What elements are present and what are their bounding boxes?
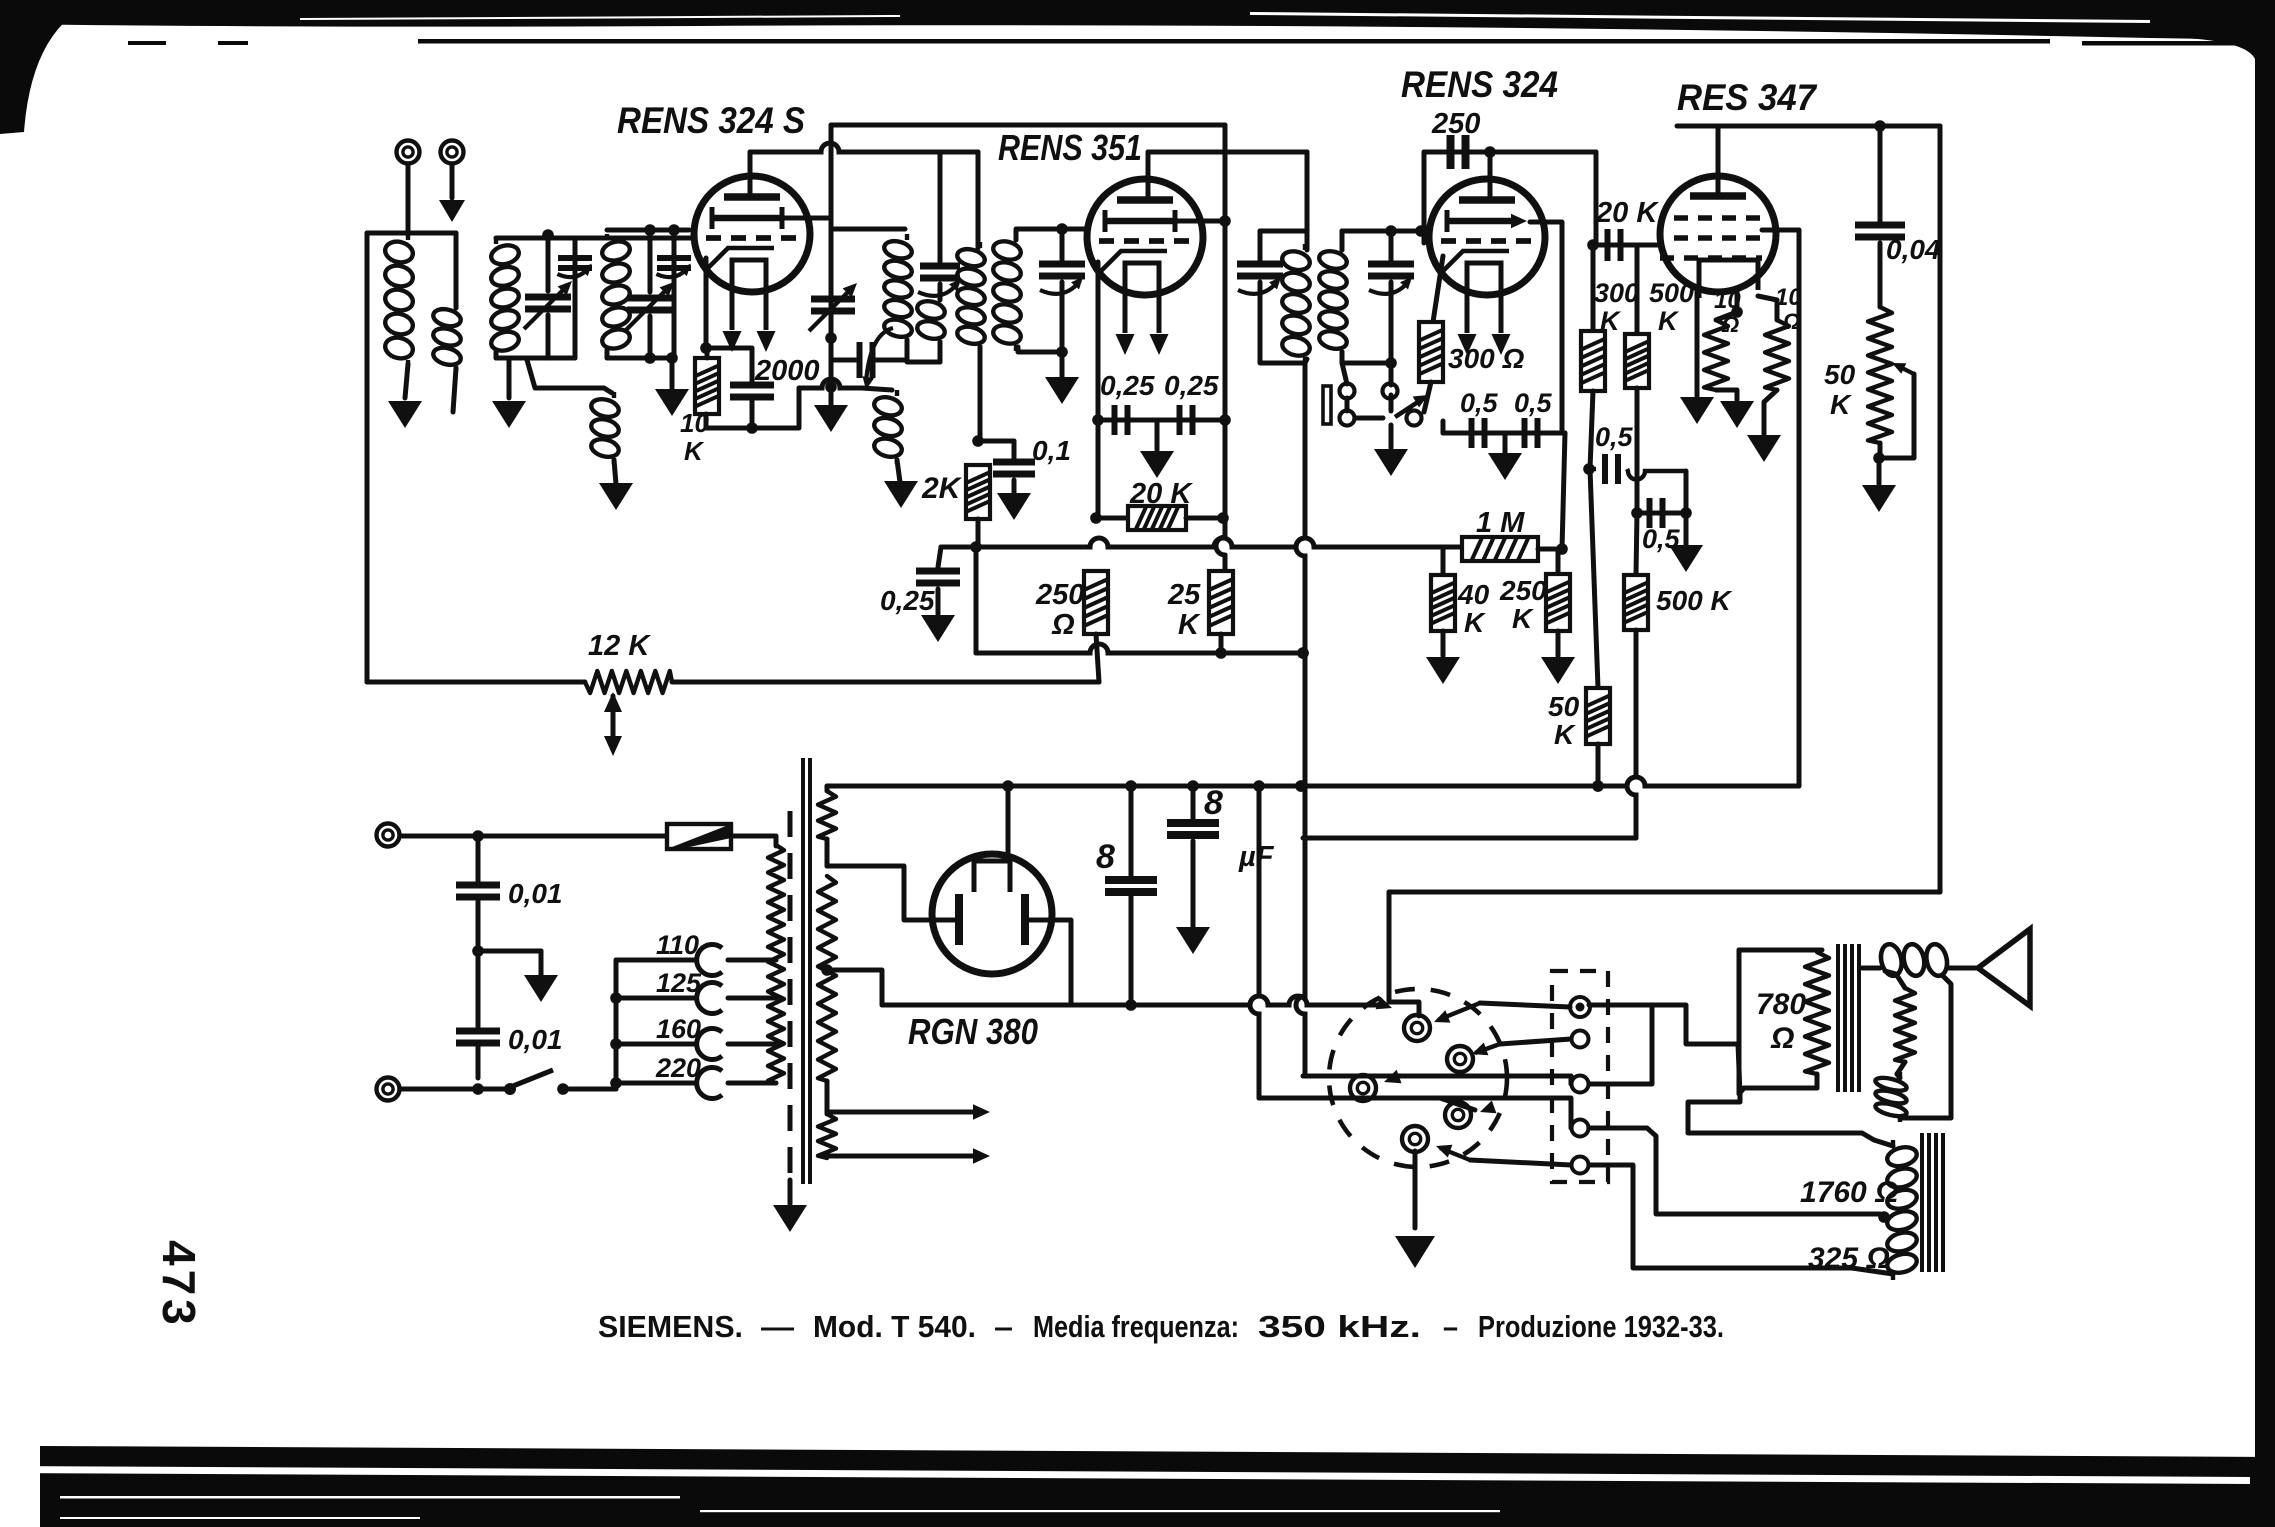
svg-text:K: K bbox=[1178, 609, 1201, 641]
wire bbox=[938, 342, 943, 362]
anode lead bbox=[1146, 152, 1151, 200]
wire bbox=[1060, 282, 1065, 378]
variable capacitor C12 bbox=[1237, 264, 1283, 276]
capacitor C24 8uF bbox=[1167, 823, 1219, 835]
wire field coil top bbox=[1688, 1094, 1874, 1140]
wire bbox=[1012, 441, 1017, 458]
wire bbox=[1305, 152, 1310, 250]
svg-text:SIEMENS.: SIEMENS. bbox=[598, 1309, 743, 1344]
screen wire bbox=[1530, 222, 1562, 433]
svg-text:RENS 324 S: RENS 324 S bbox=[617, 100, 805, 141]
strip pin bbox=[1572, 1157, 1589, 1174]
svg-text:RES 347: RES 347 bbox=[1677, 77, 1818, 118]
svg-text:350 kHz.: 350 kHz. bbox=[1258, 1309, 1421, 1344]
wire bbox=[507, 358, 512, 398]
junction bbox=[1415, 225, 1427, 237]
wire bbox=[1556, 631, 1561, 656]
bus wire B+ main bbox=[827, 777, 1799, 786]
centre tap wire bbox=[827, 970, 882, 1005]
resistor R13 500K bbox=[1624, 575, 1648, 630]
grid wire RENS 351 bbox=[1016, 227, 1088, 232]
wire bbox=[1878, 243, 1883, 307]
junction bbox=[610, 1038, 622, 1050]
top scan border band bbox=[0, 0, 2275, 40]
cathode wire bbox=[1695, 292, 1700, 396]
wire bbox=[563, 1087, 616, 1092]
junction bbox=[1731, 306, 1743, 318]
wire bbox=[1684, 513, 1689, 545]
plug pin bbox=[1402, 1126, 1428, 1152]
wire bbox=[648, 230, 653, 292]
tube RENS 351 bbox=[1087, 179, 1203, 333]
svg-text:Media frequenza:: Media frequenza: bbox=[1033, 1309, 1239, 1344]
wire bbox=[1744, 1086, 1817, 1091]
ground bbox=[773, 1205, 807, 1232]
ground terminal bbox=[441, 141, 464, 164]
ground wire bbox=[1413, 1151, 1418, 1228]
junction bbox=[825, 381, 837, 393]
screen wire bbox=[829, 125, 834, 218]
ground bbox=[1045, 377, 1079, 404]
svg-text:K: K bbox=[1512, 603, 1534, 634]
wire bbox=[974, 547, 979, 653]
svg-text:0,01: 0,01 bbox=[508, 1024, 563, 1055]
svg-text:220: 220 bbox=[655, 1053, 701, 1083]
padder capacitor C4 bbox=[860, 342, 873, 378]
wire bbox=[1186, 516, 1223, 521]
capacitor C20 0,04 bbox=[1855, 225, 1905, 237]
wire bbox=[1897, 1074, 1900, 1078]
wire B+ feed bbox=[1216, 125, 1225, 555]
transformer primary winding bbox=[768, 845, 784, 1083]
junction bbox=[1631, 507, 1643, 519]
junction bbox=[1002, 780, 1014, 792]
wire bbox=[825, 786, 830, 791]
field coil 1760/325 ohm bbox=[1885, 1140, 1918, 1280]
svg-text:Ω: Ω bbox=[1782, 309, 1800, 334]
wire bbox=[1191, 841, 1196, 926]
junction bbox=[666, 352, 678, 364]
svg-text:500 K: 500 K bbox=[1656, 585, 1732, 616]
wire bbox=[1390, 1074, 1571, 1079]
grid wire RENS 324 bbox=[1342, 229, 1424, 234]
wire bbox=[605, 350, 610, 358]
HT secondary winding bbox=[818, 876, 836, 1081]
wire bbox=[1589, 1005, 1738, 1044]
ground bbox=[388, 401, 422, 428]
wire bbox=[976, 644, 1305, 653]
variable capacitor C8 bbox=[1039, 264, 1085, 276]
wire bbox=[825, 839, 830, 866]
wire bbox=[1096, 420, 1101, 518]
wire bbox=[907, 340, 940, 362]
tap bus bbox=[614, 960, 619, 1089]
resistor R9 40K bbox=[1431, 575, 1455, 631]
ground bbox=[1374, 449, 1408, 476]
svg-text:300 Ω: 300 Ω bbox=[1448, 343, 1524, 374]
mains terminal bbox=[377, 1078, 400, 1101]
printed top frame line bbox=[418, 39, 2050, 44]
wire bbox=[1739, 950, 1744, 1094]
trimmer capacitor C1a bbox=[558, 258, 592, 268]
wiper bbox=[611, 696, 616, 740]
tube RENS 324 bbox=[1429, 179, 1545, 333]
wire bbox=[406, 164, 411, 233]
heater wire bbox=[827, 1154, 975, 1159]
wire bbox=[546, 238, 551, 291]
power switch bbox=[504, 1083, 516, 1095]
wire bbox=[1257, 786, 1262, 996]
cathode wire bbox=[1096, 262, 1101, 420]
junction bbox=[1583, 463, 1595, 475]
wire bbox=[367, 231, 456, 236]
svg-text:K: K bbox=[684, 436, 705, 466]
junction bbox=[1295, 780, 1307, 792]
junction bbox=[1680, 507, 1692, 519]
wire bbox=[938, 284, 943, 300]
wire bbox=[454, 233, 459, 308]
ground bbox=[1176, 927, 1210, 954]
heater winding bbox=[818, 1114, 836, 1158]
tap wire bbox=[728, 958, 776, 963]
ground bbox=[997, 493, 1031, 520]
trimmer capacitor C2a bbox=[657, 258, 691, 268]
field coil core bbox=[1922, 1133, 1943, 1272]
output transformer secondary bbox=[1895, 988, 1915, 1062]
wire bbox=[938, 547, 941, 567]
anode wire to IF2 bbox=[750, 143, 978, 152]
wire bbox=[1440, 1098, 1571, 1128]
wire bbox=[1758, 296, 1777, 320]
wire bbox=[1096, 634, 1099, 682]
wire bbox=[546, 315, 551, 358]
ground bbox=[1680, 397, 1714, 424]
wire bbox=[1852, 1268, 1893, 1274]
resistor R3 20K bbox=[1128, 506, 1186, 530]
junction bbox=[644, 352, 656, 364]
svg-text:Ω: Ω bbox=[1051, 609, 1075, 641]
svg-text:20 K: 20 K bbox=[1129, 478, 1193, 510]
wire bbox=[476, 836, 481, 881]
oscillator loop wire bbox=[834, 227, 905, 232]
mains wire bbox=[400, 834, 667, 839]
capacitor C6 2000 bbox=[730, 385, 774, 397]
wire bbox=[1635, 388, 1640, 513]
anode lead bbox=[1716, 126, 1721, 196]
svg-text:0,5: 0,5 bbox=[1595, 422, 1634, 452]
wire bbox=[1440, 1098, 1475, 1110]
bus wire B+ bbox=[941, 538, 1462, 547]
wire bbox=[1191, 786, 1196, 820]
junction bbox=[821, 964, 833, 976]
wire bbox=[1716, 390, 1737, 400]
junction bbox=[1219, 414, 1231, 426]
resistor R5 25K bbox=[1209, 571, 1233, 634]
printed top frame line right part bbox=[2082, 41, 2246, 46]
wire bbox=[1538, 547, 1565, 552]
svg-text:K: K bbox=[1830, 389, 1852, 420]
junction bbox=[1125, 780, 1137, 792]
resistor R12 500K bbox=[1625, 334, 1649, 388]
wire output feed bbox=[1938, 126, 1943, 892]
grid wire node A bbox=[496, 236, 695, 241]
wire 1760 tap bbox=[1589, 1128, 1880, 1214]
junction bbox=[746, 422, 758, 434]
switch lever pivot bbox=[1389, 395, 1394, 411]
wire bbox=[731, 836, 776, 846]
resistor R8 1M bbox=[1462, 537, 1538, 561]
junction bbox=[1217, 512, 1229, 524]
svg-text:–: – bbox=[1443, 1309, 1458, 1344]
junction bbox=[1592, 780, 1604, 792]
ground bbox=[599, 483, 633, 510]
wire bbox=[1738, 1044, 1740, 1094]
svg-text:0,5: 0,5 bbox=[1460, 388, 1499, 418]
wire bbox=[1470, 1160, 1571, 1165]
junction bbox=[1056, 223, 1068, 235]
wire bbox=[1422, 152, 1427, 243]
HT secondary winding top bbox=[818, 791, 836, 839]
junction bbox=[1215, 647, 1227, 659]
wire bbox=[1305, 359, 1307, 363]
svg-text:10: 10 bbox=[1714, 287, 1741, 314]
wire bbox=[1797, 230, 1802, 786]
plug pin bbox=[1445, 1102, 1471, 1128]
ground bbox=[524, 975, 558, 1002]
wire bbox=[1098, 418, 1225, 423]
junction bbox=[970, 541, 982, 553]
core ground lead bbox=[788, 1180, 793, 1204]
wire bbox=[1389, 282, 1394, 385]
tap contact 220V bbox=[697, 1068, 722, 1099]
junction bbox=[1125, 999, 1137, 1011]
mains terminal bbox=[377, 824, 400, 847]
speaker coil bbox=[1878, 942, 1950, 977]
screen wire bbox=[1762, 228, 1799, 233]
plug pin bbox=[1447, 1046, 1473, 1072]
tap contact 125V bbox=[697, 982, 722, 1013]
variable capacitor C13 bbox=[1368, 264, 1414, 276]
screen lead bbox=[782, 216, 831, 221]
wire bbox=[1260, 229, 1307, 234]
wire bbox=[478, 949, 541, 954]
junction bbox=[472, 830, 484, 842]
ground bbox=[884, 481, 918, 508]
wire bbox=[831, 358, 858, 363]
bottom scan border band bbox=[40, 1446, 2275, 1527]
tap contact 160V bbox=[697, 1029, 722, 1060]
strip pin bbox=[1572, 1120, 1589, 1137]
capacitor C17 20K bbox=[1608, 229, 1621, 261]
resistor R15 10 ohm bbox=[1704, 320, 1728, 390]
rectified output wire bbox=[882, 996, 1385, 1005]
switch contact bbox=[1340, 411, 1355, 426]
wire bbox=[1250, 996, 1259, 1098]
speaker horn bbox=[1978, 929, 2030, 1006]
junction bbox=[1385, 357, 1397, 369]
wire bbox=[1874, 1140, 1893, 1146]
resistor R1 10K bbox=[695, 358, 719, 414]
switch bar bbox=[1323, 386, 1331, 424]
wire bbox=[750, 397, 755, 428]
wire bbox=[453, 368, 456, 412]
wire to plug bbox=[1259, 1096, 1440, 1101]
wire bbox=[1060, 229, 1065, 260]
junction bbox=[1219, 215, 1231, 227]
svg-text:1 M: 1 M bbox=[1476, 507, 1525, 539]
svg-text:RENS 351: RENS 351 bbox=[998, 127, 1142, 168]
mains wire bbox=[400, 1087, 506, 1092]
bottom band white streak bbox=[60, 1496, 680, 1499]
wire bbox=[1340, 231, 1345, 250]
wire bbox=[976, 519, 981, 546]
wire bbox=[1503, 433, 1508, 454]
junction bbox=[610, 992, 622, 1004]
wire bbox=[1948, 966, 1978, 971]
filament lead bbox=[1006, 786, 1011, 861]
switch contact bbox=[1340, 384, 1355, 399]
capacitor C23 8uF bbox=[1105, 880, 1157, 892]
svg-text:0,5: 0,5 bbox=[1514, 388, 1553, 418]
wire bbox=[978, 347, 983, 441]
wire bbox=[1716, 312, 1737, 320]
wire to plug pin bbox=[1389, 892, 1419, 1016]
svg-text:RENS 324: RENS 324 bbox=[1401, 64, 1558, 105]
output transformer primary 780 ohm bbox=[1805, 952, 1829, 1074]
oscillator wire bbox=[829, 218, 834, 410]
svg-text:Ω: Ω bbox=[1770, 1022, 1794, 1055]
strip pin bbox=[1570, 997, 1590, 1017]
wire bbox=[405, 364, 408, 398]
capacitor C16 0,5 bbox=[1525, 418, 1538, 448]
bus wire B+ screen bbox=[831, 123, 1225, 128]
svg-text:µF: µF bbox=[1238, 841, 1275, 873]
wire bbox=[1389, 231, 1394, 260]
oscillator coil L6 bbox=[882, 234, 913, 344]
capacitor C19 0,5 bbox=[1650, 498, 1663, 528]
plug pin bbox=[1404, 1015, 1430, 1041]
resistor R10 250K bbox=[1546, 574, 1570, 631]
svg-text:0,01: 0,01 bbox=[508, 878, 563, 909]
resistor R14 50K bbox=[1586, 688, 1610, 744]
wire bbox=[862, 388, 892, 390]
ground bbox=[1669, 545, 1703, 572]
transformer core bbox=[788, 811, 793, 1180]
junction bbox=[972, 435, 984, 447]
variable capacitor C3 oscillator bbox=[811, 299, 855, 311]
wire bbox=[1303, 836, 1636, 841]
capacitor C15 0,5 bbox=[1472, 418, 1485, 448]
wire bbox=[897, 460, 900, 482]
junction bbox=[1297, 647, 1309, 659]
trimmer capacitor C5 bbox=[920, 266, 960, 278]
wire bbox=[1635, 245, 1640, 334]
capacitor C7 0,1 bbox=[993, 462, 1035, 474]
wire bbox=[1878, 443, 1883, 458]
top band texture streak bbox=[300, 15, 900, 20]
anode wire RENS 324 bbox=[1424, 150, 1596, 155]
svg-text:12 K: 12 K bbox=[588, 630, 651, 662]
svg-text:Mod. T 540.: Mod. T 540. bbox=[813, 1309, 976, 1344]
wire bbox=[1885, 971, 1905, 988]
ground bbox=[1488, 453, 1522, 480]
junction bbox=[1385, 225, 1397, 237]
wire bbox=[1480, 1003, 1570, 1007]
wire detector return bbox=[1296, 363, 1305, 1076]
wire IF2 primary top bbox=[976, 152, 981, 248]
wire bbox=[1739, 948, 1822, 953]
wire bbox=[1637, 511, 1686, 516]
bottom band white streak bbox=[60, 1517, 420, 1519]
svg-text:250: 250 bbox=[1431, 108, 1480, 140]
junction bbox=[1297, 647, 1309, 659]
svg-text:8: 8 bbox=[1096, 838, 1115, 876]
capacitor C11 0,25 bbox=[916, 571, 960, 583]
junction bbox=[1874, 120, 1886, 132]
wire bbox=[1345, 398, 1350, 411]
wire bbox=[825, 1081, 830, 1114]
plug pin bbox=[1350, 1075, 1376, 1101]
svg-text:250: 250 bbox=[1035, 579, 1084, 611]
wire bbox=[573, 238, 578, 358]
wire AVC return bbox=[365, 233, 370, 682]
tuning coil L3 bbox=[489, 238, 521, 358]
wire bbox=[1569, 1076, 1574, 1084]
cathode wire bbox=[704, 258, 709, 348]
capacitor C9 0,25 bbox=[1115, 405, 1128, 435]
wire bbox=[1155, 420, 1160, 450]
svg-text:0,25: 0,25 bbox=[1164, 370, 1219, 401]
junction bbox=[1295, 780, 1307, 792]
wire bbox=[1897, 1062, 1905, 1074]
resistor R2 2K bbox=[966, 465, 990, 519]
switch contact bbox=[1383, 384, 1398, 399]
svg-text:RGN 380: RGN 380 bbox=[908, 1011, 1038, 1052]
strip pin bbox=[1572, 1031, 1589, 1048]
svg-text:1760 Ω: 1760 Ω bbox=[1800, 1176, 1899, 1209]
transformer core laminations bbox=[803, 758, 810, 1184]
wire bbox=[706, 388, 799, 428]
svg-text:8: 8 bbox=[1204, 784, 1223, 822]
wire bbox=[1900, 976, 1951, 1118]
capacitor C14 250pF bbox=[1451, 135, 1466, 169]
wire bbox=[750, 348, 755, 385]
junction bbox=[1484, 146, 1496, 158]
wire bbox=[936, 589, 941, 614]
top-left scan corner bbox=[0, 0, 100, 134]
bottom band white streak bbox=[700, 1510, 1500, 1512]
tube RES 347 bbox=[1660, 176, 1776, 298]
coupling coil L5 bbox=[589, 392, 620, 464]
wire bbox=[672, 230, 677, 358]
switch lever bbox=[1395, 398, 1424, 417]
junction bbox=[472, 945, 484, 957]
voice coil bbox=[1874, 1072, 1908, 1122]
svg-text:–: – bbox=[994, 1309, 1013, 1344]
ground arrow bbox=[439, 200, 465, 222]
junction bbox=[1587, 239, 1599, 251]
tap wire bbox=[728, 996, 776, 1001]
junction bbox=[1187, 780, 1199, 792]
svg-text:0,25: 0,25 bbox=[1100, 370, 1155, 401]
junction bbox=[1056, 346, 1068, 358]
junction bbox=[472, 1083, 484, 1095]
svg-text:0,25: 0,25 bbox=[880, 585, 935, 616]
junction bbox=[1878, 1211, 1890, 1223]
wire bbox=[1500, 1039, 1571, 1044]
svg-text:Produzione 1932-33.: Produzione 1932-33. bbox=[1478, 1309, 1724, 1344]
capacitor C21 0,01 bbox=[456, 885, 500, 897]
